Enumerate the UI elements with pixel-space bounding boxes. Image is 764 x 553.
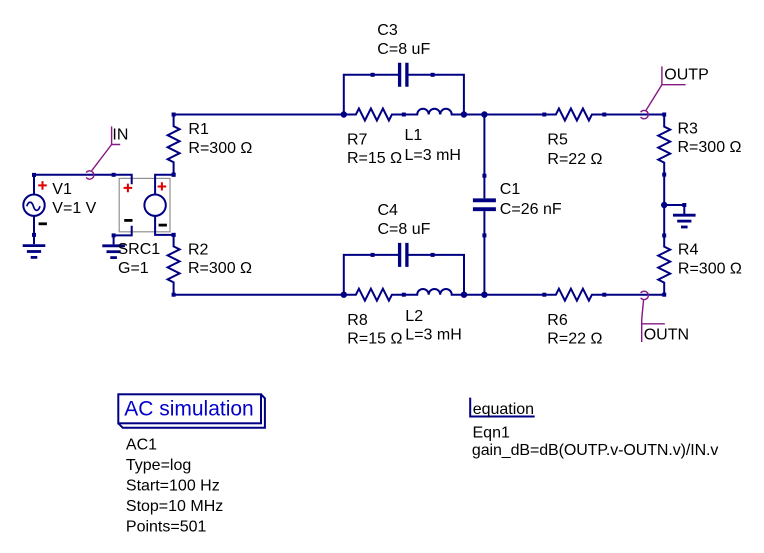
- capacitor C4 with branch wires: [344, 243, 464, 295]
- junction node top-left of bridge: [341, 111, 347, 117]
- resistor R1: [168, 113, 180, 177]
- wire net IN: V1 to SRC1 input: [34, 174, 114, 176]
- svg-text:C1: C1: [500, 181, 521, 198]
- resistor R5: [542, 109, 606, 121]
- AC simulation box: [118, 394, 265, 428]
- svg-text:gain_dB=dB(OUTP.v-OUTN.v)/IN.v: gain_dB=dB(OUTP.v-OUTN.v)/IN.v: [472, 442, 718, 459]
- resistor R8: [344, 289, 406, 301]
- wire bottom rail: [174, 294, 344, 296]
- svg-text:L2: L2: [405, 308, 423, 325]
- svg-text:R4: R4: [678, 242, 699, 259]
- svg-text:C=8 uF: C=8 uF: [377, 41, 430, 58]
- VCCS SRC1: [112, 173, 176, 238]
- resistor R2: [168, 233, 180, 297]
- svg-text:equation: equation: [473, 401, 534, 418]
- svg-text:C=26 nF: C=26 nF: [500, 201, 562, 218]
- ground under SRC1: [102, 235, 125, 257]
- svg-text:R=15 Ω: R=15 Ω: [347, 150, 402, 167]
- node label IN: [86, 126, 120, 179]
- svg-text:R=300 Ω: R=300 Ω: [678, 261, 742, 278]
- capacitor C1: [473, 115, 496, 295]
- wire top rail middle: [464, 114, 544, 116]
- svg-text:R=15 Ω: R=15 Ω: [347, 330, 402, 347]
- svg-text:SRC1: SRC1: [118, 241, 161, 258]
- svg-text:C=8 uF: C=8 uF: [378, 221, 431, 238]
- ground right: [673, 203, 696, 227]
- svg-text:R5: R5: [547, 131, 568, 148]
- wire to right ground: [664, 204, 684, 206]
- junction node at right ground: [661, 202, 667, 208]
- svg-text:R=22 Ω: R=22 Ω: [547, 331, 602, 348]
- resistor R4: [658, 205, 670, 297]
- svg-text:Start=100 Hz: Start=100 Hz: [126, 477, 220, 494]
- svg-text:AC1: AC1: [126, 436, 157, 453]
- svg-text:V=1 V: V=1 V: [52, 200, 96, 217]
- svg-text:OUTN: OUTN: [644, 327, 689, 344]
- svg-text:OUTP: OUTP: [664, 67, 708, 84]
- svg-text:Eqn1: Eqn1: [473, 424, 510, 441]
- svg-text:L1: L1: [405, 127, 423, 144]
- svg-text:R8: R8: [347, 312, 368, 329]
- svg-text:IN: IN: [112, 126, 128, 143]
- capacitor C3 with branch wires: [344, 63, 464, 115]
- wire bottom rail middle: [464, 294, 544, 296]
- junction node top-right of bridge: [461, 111, 467, 117]
- ground under V1: [23, 235, 46, 257]
- svg-text:C3: C3: [377, 22, 398, 39]
- svg-text:R=22 Ω: R=22 Ω: [547, 151, 602, 168]
- voltage source V1: [23, 173, 47, 237]
- resistor R7: [344, 109, 406, 121]
- svg-text:R7: R7: [347, 132, 368, 149]
- svg-text:V1: V1: [52, 181, 72, 198]
- svg-text:G=1: G=1: [118, 260, 149, 277]
- junction node C1 bottom: [481, 292, 487, 298]
- AC simulation parameters: [126, 436, 223, 535]
- svg-text:L=3 mH: L=3 mH: [405, 327, 461, 344]
- inductor L2: [404, 289, 464, 295]
- svg-text:R2: R2: [188, 241, 209, 258]
- junction node bottom-right of bridge: [461, 292, 467, 298]
- wire top rail: [174, 114, 344, 116]
- svg-text:C4: C4: [378, 202, 399, 219]
- svg-text:R=300 Ω: R=300 Ω: [188, 260, 252, 277]
- svg-text:R=300 Ω: R=300 Ω: [678, 139, 742, 156]
- node label OUTP: [641, 66, 686, 118]
- svg-text:R1: R1: [188, 121, 209, 138]
- svg-text:Type=log: Type=log: [126, 457, 191, 474]
- junction node C1 top: [481, 111, 487, 117]
- svg-text:Points=501: Points=501: [126, 518, 207, 535]
- resistor R6: [542, 289, 606, 301]
- svg-text:R6: R6: [547, 312, 568, 329]
- svg-text:Stop=10 MHz: Stop=10 MHz: [126, 498, 223, 515]
- svg-text:L=3 mH: L=3 mH: [405, 147, 461, 164]
- svg-text:R3: R3: [678, 121, 699, 138]
- wire R5 to OUTP corner: [604, 114, 664, 116]
- inductor L1: [404, 109, 464, 115]
- wire R6 to OUTN corner: [604, 294, 664, 296]
- svg-text:R=300 Ω: R=300 Ω: [188, 140, 252, 157]
- node label OUTN: [641, 291, 665, 342]
- svg-text:AC simulation: AC simulation: [124, 397, 254, 420]
- equation block: [470, 398, 718, 459]
- junction node bottom-left of bridge: [341, 292, 347, 298]
- resistor R3: [658, 113, 670, 206]
